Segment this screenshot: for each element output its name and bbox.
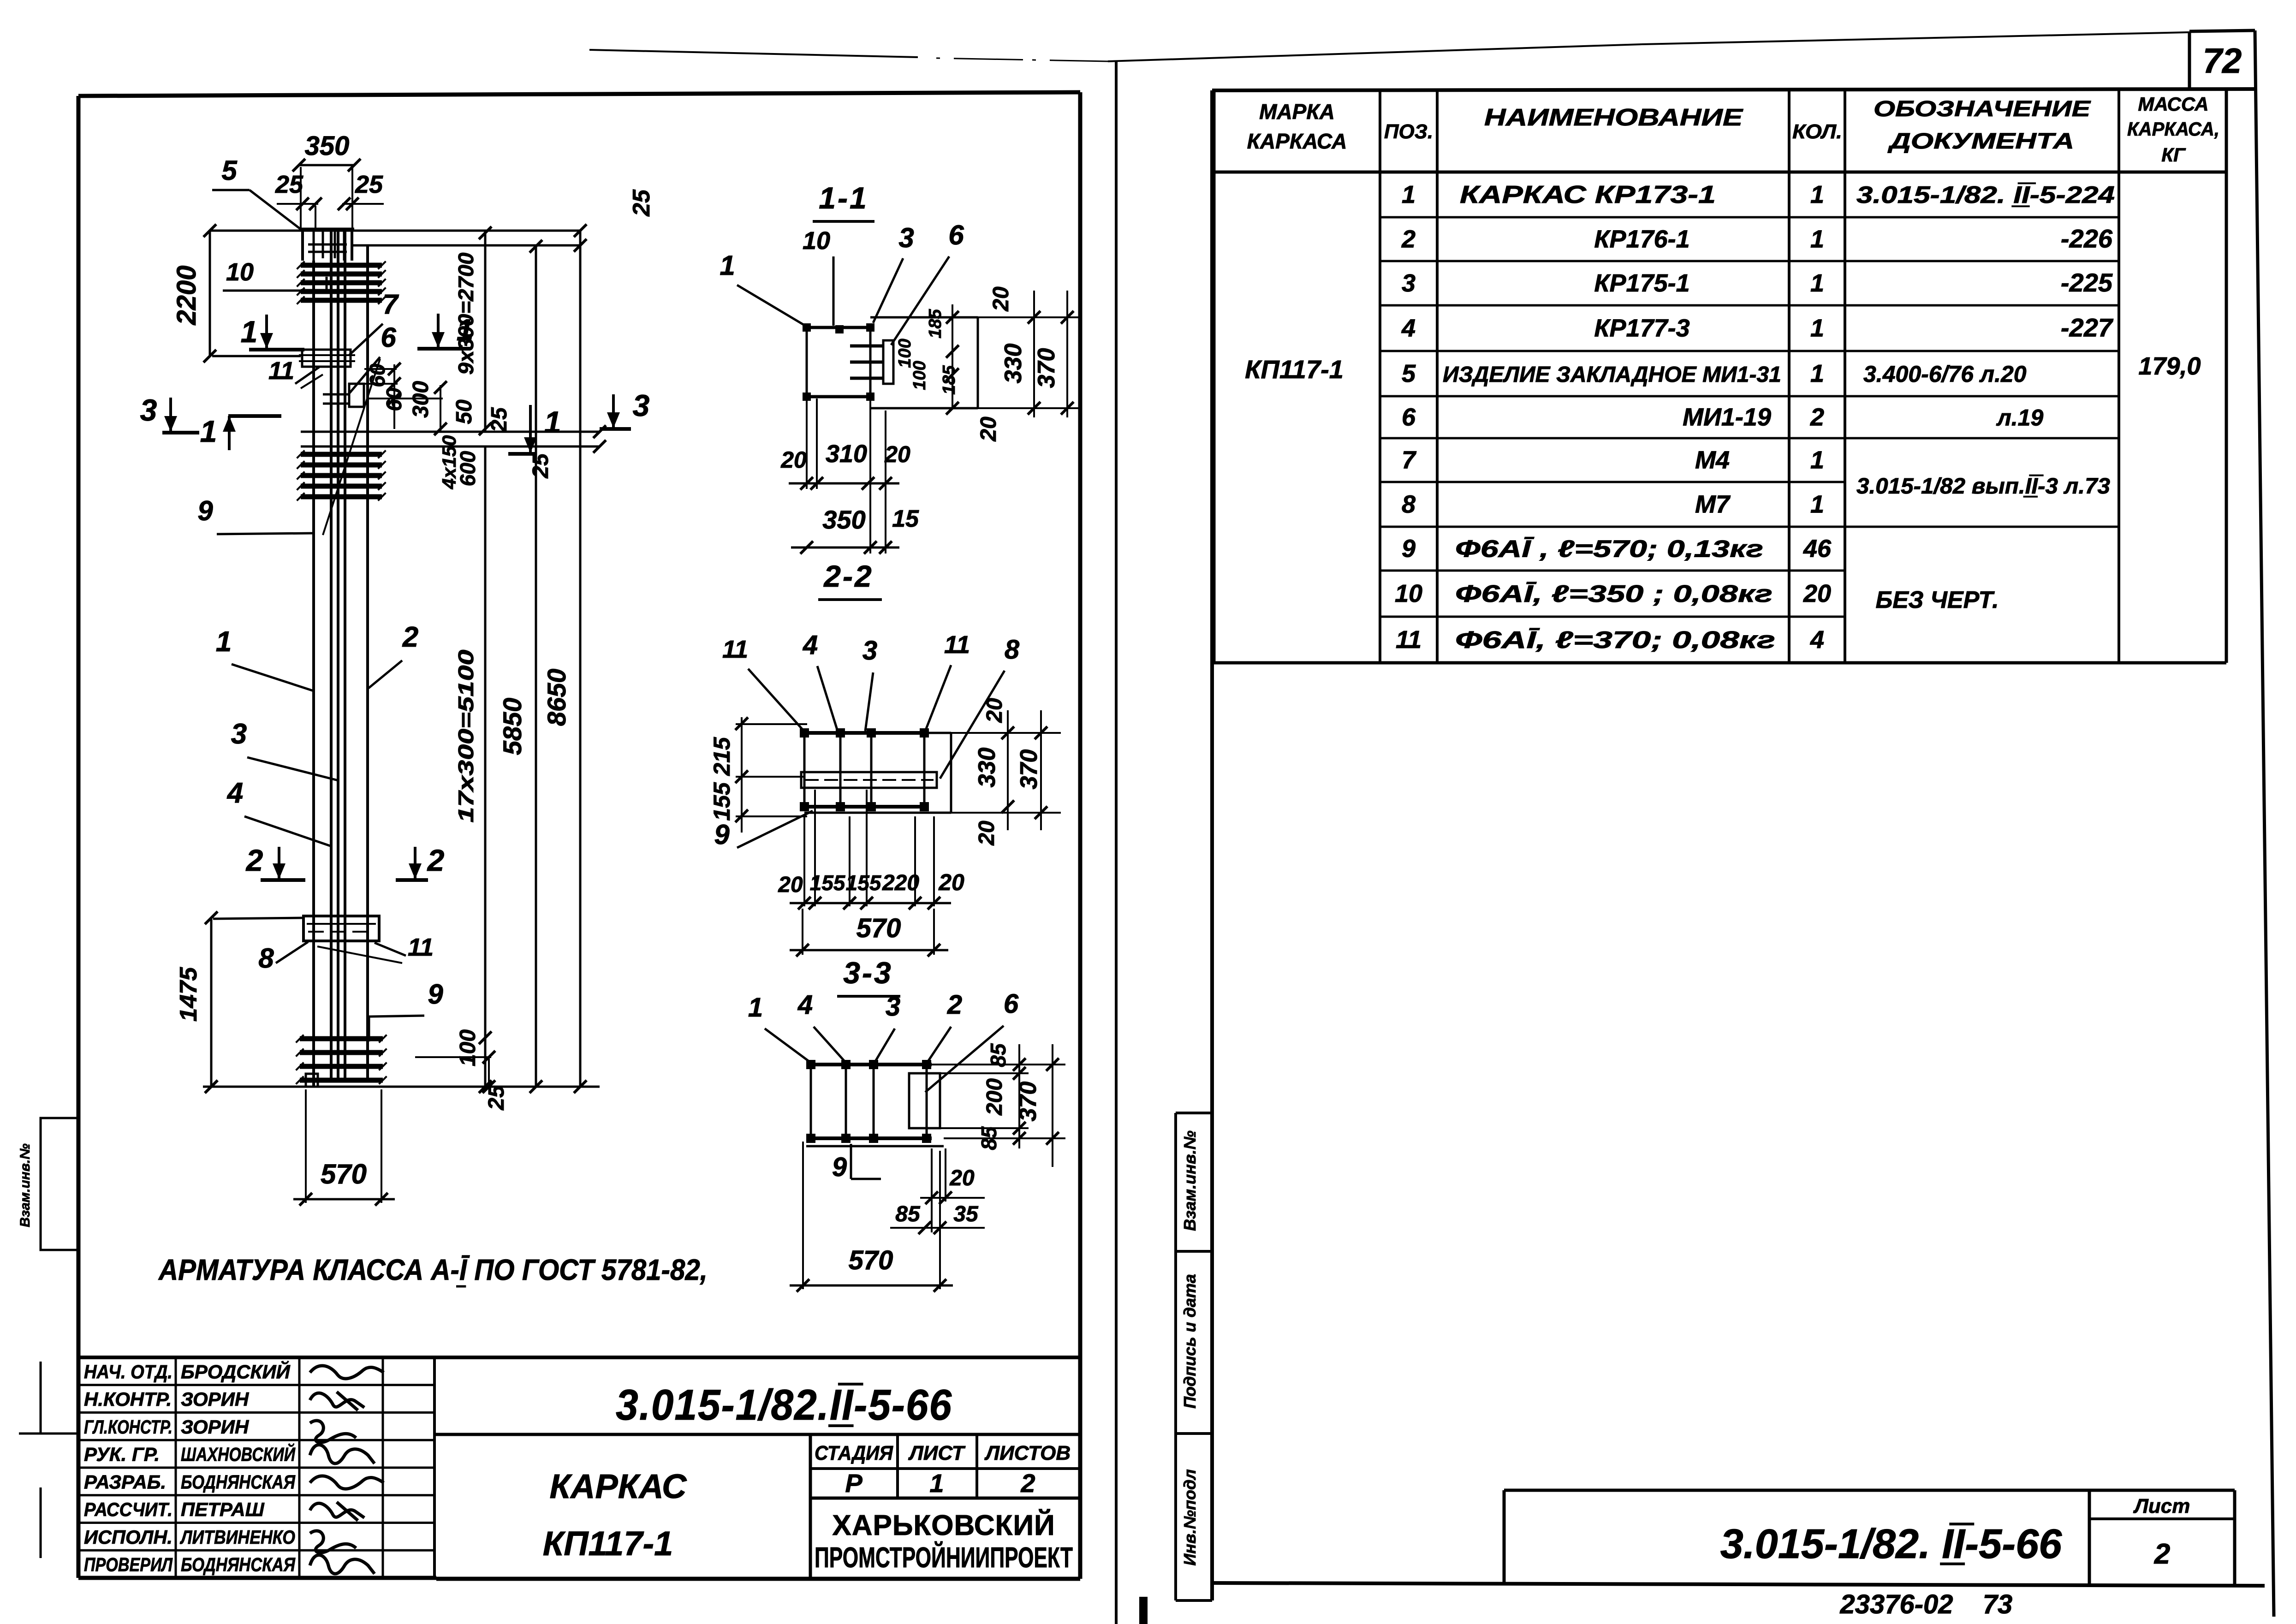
svg-text:3.015-1/82. II-5-66: 3.015-1/82. II-5-66 xyxy=(1720,1521,2062,1567)
svg-text:КР176-1: КР176-1 xyxy=(1594,226,1689,253)
svg-text:370: 370 xyxy=(1033,348,1060,388)
svg-text:БРОДСКИЙ: БРОДСКИЙ xyxy=(181,1360,291,1382)
svg-text:1: 1 xyxy=(929,1469,944,1498)
svg-text:КАРКАС: КАРКАС xyxy=(550,1467,688,1505)
svg-text:Взам.инв.№: Взам.инв.№ xyxy=(18,1143,33,1227)
svg-text:20: 20 xyxy=(778,873,803,897)
svg-text:3: 3 xyxy=(633,388,650,422)
svg-text:КГ: КГ xyxy=(2161,144,2186,166)
svg-text:ОБОЗНАЧЕНИЕ: ОБОЗНАЧЕНИЕ xyxy=(1874,97,2091,121)
svg-text:7: 7 xyxy=(1402,446,1417,474)
svg-text:1-1: 1-1 xyxy=(819,181,868,215)
svg-text:570: 570 xyxy=(857,913,901,943)
svg-text:310: 310 xyxy=(826,440,867,468)
svg-text:25: 25 xyxy=(487,407,512,433)
svg-text:8: 8 xyxy=(1402,491,1416,518)
svg-text:3: 3 xyxy=(886,992,900,1022)
svg-text:5: 5 xyxy=(1402,360,1416,387)
svg-text:1: 1 xyxy=(1810,491,1824,518)
svg-text:72: 72 xyxy=(2203,42,2242,81)
svg-text:-225: -225 xyxy=(2061,268,2113,297)
svg-text:11: 11 xyxy=(722,636,748,663)
svg-text:1: 1 xyxy=(1810,181,1824,208)
svg-text:М4: М4 xyxy=(1695,446,1730,474)
svg-text:ШАХНОВСКИЙ: ШАХНОВСКИЙ xyxy=(181,1443,296,1465)
svg-text:85: 85 xyxy=(895,1202,921,1226)
svg-text:Лист: Лист xyxy=(2133,1495,2190,1517)
svg-text:НАИМЕНОВАНИЕ: НАИМЕНОВАНИЕ xyxy=(1484,104,1743,131)
svg-text:17х300=5100: 17х300=5100 xyxy=(454,649,478,823)
svg-text:КАРКАС КР173-1: КАРКАС КР173-1 xyxy=(1460,181,1716,208)
svg-text:11: 11 xyxy=(268,357,294,385)
svg-text:Подпись и дата: Подпись и дата xyxy=(1180,1274,1199,1409)
svg-text:1475: 1475 xyxy=(175,967,202,1022)
svg-text:25: 25 xyxy=(484,1085,509,1111)
svg-text:СТАДИЯ: СТАДИЯ xyxy=(815,1442,893,1464)
svg-text:ПРОМСТРОЙНИИПРОЕКТ: ПРОМСТРОЙНИИПРОЕКТ xyxy=(815,1541,1073,1574)
svg-text:200: 200 xyxy=(982,1078,1007,1116)
svg-text:ДОКУМЕНТА: ДОКУМЕНТА xyxy=(1887,129,2074,154)
svg-text:2: 2 xyxy=(245,843,263,877)
svg-text:100: 100 xyxy=(456,1029,480,1066)
svg-text:Ф6АĪ, ℓ=350 ; 0,08кг: Ф6АĪ, ℓ=350 ; 0,08кг xyxy=(1455,581,1773,607)
svg-text:20: 20 xyxy=(780,447,807,473)
svg-text:КР177-3: КР177-3 xyxy=(1594,315,1689,342)
svg-text:570: 570 xyxy=(321,1159,367,1190)
svg-text:25: 25 xyxy=(628,189,655,217)
svg-text:КР175-1: КР175-1 xyxy=(1594,269,1689,297)
svg-text:9: 9 xyxy=(832,1152,847,1182)
svg-text:2: 2 xyxy=(402,621,418,653)
svg-text:Ф6АĪ, ℓ=370; 0,08кг: Ф6АĪ, ℓ=370; 0,08кг xyxy=(1455,627,1775,654)
svg-text:1: 1 xyxy=(1810,269,1824,297)
svg-text:2: 2 xyxy=(947,990,962,1020)
svg-text:3.015-1/82.II-5-66: 3.015-1/82.II-5-66 xyxy=(616,1380,952,1429)
svg-text:73: 73 xyxy=(1983,1589,2013,1619)
svg-text:20: 20 xyxy=(1803,580,1831,607)
svg-text:-226: -226 xyxy=(2061,224,2113,253)
svg-text:БОДНЯНСКАЯ: БОДНЯНСКАЯ xyxy=(181,1471,296,1493)
svg-text:ЛИСТ: ЛИСТ xyxy=(908,1442,966,1464)
svg-text:85: 85 xyxy=(986,1043,1010,1067)
svg-text:11: 11 xyxy=(944,631,970,659)
svg-text:6: 6 xyxy=(1004,989,1019,1019)
svg-text:ПЕТРАШ: ПЕТРАШ xyxy=(181,1499,265,1520)
svg-text:20: 20 xyxy=(938,869,964,895)
svg-text:2: 2 xyxy=(427,843,445,877)
svg-text:3.400-6/76 л.20: 3.400-6/76 л.20 xyxy=(1863,361,2027,387)
svg-text:15: 15 xyxy=(892,506,919,532)
svg-text:5: 5 xyxy=(221,155,238,186)
svg-text:20: 20 xyxy=(982,698,1007,723)
svg-text:3: 3 xyxy=(140,393,157,427)
svg-text:3.015-1/82. II-5-224: 3.015-1/82. II-5-224 xyxy=(1856,182,2115,208)
svg-text:185: 185 xyxy=(926,309,945,338)
svg-text:ГЛ.КОНСТР.: ГЛ.КОНСТР. xyxy=(84,1416,172,1438)
svg-text:46: 46 xyxy=(1803,535,1832,563)
svg-text:1: 1 xyxy=(1810,446,1824,474)
svg-text:9: 9 xyxy=(197,495,213,526)
svg-text:Н.КОНТР.: Н.КОНТР. xyxy=(84,1388,172,1410)
svg-text:25: 25 xyxy=(529,453,553,479)
svg-text:МАССА: МАССА xyxy=(2138,93,2208,115)
svg-text:7: 7 xyxy=(382,289,399,320)
svg-text:Ф6АĪ , ℓ=570; 0,13кг: Ф6АĪ , ℓ=570; 0,13кг xyxy=(1455,536,1763,563)
svg-text:10: 10 xyxy=(803,227,830,255)
svg-text:НАЧ. ОТД.: НАЧ. ОТД. xyxy=(84,1361,172,1382)
svg-text:ИЗДЕЛИЕ ЗАКЛАДНОЕ МИ1-31: ИЗДЕЛИЕ ЗАКЛАДНОЕ МИ1-31 xyxy=(1443,363,1781,387)
svg-text:2: 2 xyxy=(1401,226,1416,253)
svg-text:155: 155 xyxy=(846,871,882,895)
svg-text:1: 1 xyxy=(1810,226,1824,253)
svg-text:ЗОРИН: ЗОРИН xyxy=(181,1416,250,1438)
svg-text:23376-02: 23376-02 xyxy=(1839,1589,1953,1619)
svg-text:100: 100 xyxy=(910,361,929,390)
svg-text:5850: 5850 xyxy=(498,698,527,755)
svg-text:КАРКАСА,: КАРКАСА, xyxy=(2127,118,2219,140)
svg-text:3: 3 xyxy=(898,222,914,253)
svg-text:ХАРЬКОВСКИЙ: ХАРЬКОВСКИЙ xyxy=(832,1509,1055,1541)
svg-text:10: 10 xyxy=(1395,580,1422,607)
svg-text:350: 350 xyxy=(822,505,865,534)
svg-text:ИСПОЛН.: ИСПОЛН. xyxy=(84,1526,172,1548)
svg-text:КП117-1: КП117-1 xyxy=(1245,355,1344,384)
svg-text:9: 9 xyxy=(428,979,443,1010)
svg-text:АРМАТУРА КЛАССА А-Ī ПО ГОС: АРМАТУРА КЛАССА А-Ī ПО ГОСТ 5781-82, xyxy=(158,1253,708,1286)
svg-text:330: 330 xyxy=(974,748,1000,788)
svg-text:8650: 8650 xyxy=(542,669,571,726)
svg-text:20: 20 xyxy=(884,441,910,467)
svg-text:155: 155 xyxy=(810,871,846,895)
svg-text:20: 20 xyxy=(949,1166,975,1190)
svg-text:3-3: 3-3 xyxy=(843,956,892,990)
svg-text:10: 10 xyxy=(226,258,254,286)
svg-text:4: 4 xyxy=(226,777,243,809)
svg-text:25: 25 xyxy=(355,171,383,198)
svg-text:КАРКАСА: КАРКАСА xyxy=(1247,129,1347,153)
svg-text:20: 20 xyxy=(976,416,1001,442)
svg-text:ЛИСТОВ: ЛИСТОВ xyxy=(984,1442,1071,1464)
svg-text:6: 6 xyxy=(381,322,396,353)
svg-text:220: 220 xyxy=(882,871,919,895)
svg-text:1: 1 xyxy=(1810,360,1824,387)
svg-text:4: 4 xyxy=(1810,626,1824,654)
svg-text:20: 20 xyxy=(989,286,1013,312)
svg-text:9х300=2700: 9х300=2700 xyxy=(454,252,478,375)
svg-text:Р: Р xyxy=(845,1469,862,1498)
svg-text:4: 4 xyxy=(1401,315,1416,342)
svg-text:8: 8 xyxy=(1005,635,1020,665)
svg-text:МАРКА: МАРКА xyxy=(1259,100,1335,124)
svg-text:6: 6 xyxy=(1402,404,1416,431)
svg-text:МИ1-19: МИ1-19 xyxy=(1683,404,1771,431)
svg-text:М7: М7 xyxy=(1695,491,1731,518)
svg-text:185: 185 xyxy=(940,365,959,394)
svg-text:КП117-1: КП117-1 xyxy=(543,1524,673,1563)
svg-text:3: 3 xyxy=(231,718,247,750)
svg-text:1: 1 xyxy=(200,414,217,448)
svg-text:570: 570 xyxy=(849,1245,893,1275)
svg-text:215: 215 xyxy=(709,737,735,776)
svg-text:9: 9 xyxy=(714,819,730,850)
svg-text:1: 1 xyxy=(241,315,258,349)
svg-text:ЛИТВИНЕНКО: ЛИТВИНЕНКО xyxy=(179,1526,295,1548)
svg-text:Взам.инв.№: Взам.инв.№ xyxy=(1180,1130,1199,1231)
svg-text:1: 1 xyxy=(1810,315,1824,342)
svg-text:9: 9 xyxy=(1402,535,1416,563)
svg-text:ПОЗ.: ПОЗ. xyxy=(1384,120,1433,143)
svg-text:Инв.№подл: Инв.№подл xyxy=(1180,1469,1199,1565)
svg-text:РАЗРАБ.: РАЗРАБ. xyxy=(84,1471,166,1493)
svg-text:2-2: 2-2 xyxy=(823,559,873,593)
svg-text:155: 155 xyxy=(709,782,735,821)
svg-text:2: 2 xyxy=(2154,1538,2170,1570)
svg-text:330: 330 xyxy=(1000,344,1027,384)
svg-text:РУК. ГР.: РУК. ГР. xyxy=(84,1444,160,1465)
svg-text:3: 3 xyxy=(862,636,877,666)
svg-text:350: 350 xyxy=(305,131,350,161)
svg-text:1: 1 xyxy=(720,250,735,281)
svg-text:БЕЗ ЧЕРТ.: БЕЗ ЧЕРТ. xyxy=(1875,587,1999,613)
svg-text:600: 600 xyxy=(456,451,480,486)
svg-text:ПРОВЕРИЛ: ПРОВЕРИЛ xyxy=(84,1554,173,1576)
svg-text:БОДНЯНСКАЯ: БОДНЯНСКАЯ xyxy=(181,1554,296,1576)
svg-text:6: 6 xyxy=(948,220,964,250)
svg-text:3: 3 xyxy=(1402,269,1416,297)
svg-text:50: 50 xyxy=(452,399,476,424)
svg-text:1: 1 xyxy=(1402,181,1416,208)
svg-text:370: 370 xyxy=(1015,1082,1041,1122)
svg-text:л.19: л.19 xyxy=(1996,405,2044,431)
svg-text:11: 11 xyxy=(408,934,434,961)
svg-text:179,0: 179,0 xyxy=(2138,352,2201,380)
svg-text:1: 1 xyxy=(216,626,232,658)
svg-text:11: 11 xyxy=(1396,626,1422,654)
svg-text:-227: -227 xyxy=(2061,313,2114,342)
svg-text:1: 1 xyxy=(748,993,763,1023)
svg-text:370: 370 xyxy=(1016,750,1042,790)
svg-text:25: 25 xyxy=(275,171,303,198)
svg-text:2: 2 xyxy=(1810,404,1824,431)
svg-text:ЗОРИН: ЗОРИН xyxy=(181,1388,250,1410)
svg-text:2200: 2200 xyxy=(172,265,202,325)
svg-text:20: 20 xyxy=(975,821,999,846)
svg-text:КОЛ.: КОЛ. xyxy=(1792,120,1842,143)
svg-text:1: 1 xyxy=(544,405,561,439)
svg-text:4: 4 xyxy=(797,990,813,1020)
svg-text:3.015-1/82 вып.II-3 л.73: 3.015-1/82 вып.II-3 л.73 xyxy=(1856,474,2110,499)
svg-text:8: 8 xyxy=(258,943,274,974)
svg-text:4: 4 xyxy=(803,630,818,660)
svg-text:2: 2 xyxy=(1020,1469,1035,1498)
svg-text:РАССЧИТ.: РАССЧИТ. xyxy=(84,1499,172,1520)
svg-text:35: 35 xyxy=(953,1202,979,1226)
